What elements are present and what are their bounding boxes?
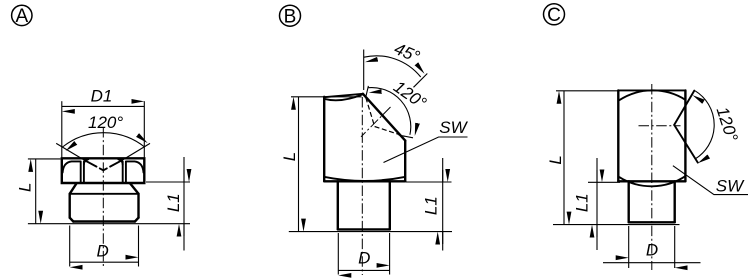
svg-text:L: L <box>15 183 34 192</box>
svg-text:A: A <box>15 6 28 27</box>
collar flare left (A) <box>70 183 77 193</box>
45-deg reference vertical line (B) <box>363 50 365 91</box>
thread bottom edge (B) <box>338 228 390 230</box>
dimension L1 bottom arrow (A) <box>183 224 185 236</box>
svg-text:C: C <box>547 5 561 26</box>
svg-text:SW: SW <box>439 118 468 137</box>
thread right side (C) <box>674 181 676 222</box>
SW leader line (C) <box>673 166 748 195</box>
dimension D left outside arrow (C) <box>603 262 629 264</box>
body left edge (B) <box>323 97 325 182</box>
dimension D line (B) <box>338 269 389 271</box>
body right edge (B) <box>404 141 406 182</box>
body right edge (C) <box>684 90 686 181</box>
svg-text:L: L <box>546 155 565 164</box>
collar bottom chamfer right (A) <box>135 218 139 222</box>
dimension L top extension line (A) <box>28 158 61 160</box>
centerline vertical (C) <box>651 84 653 270</box>
bottom extension line shared (C) <box>553 224 680 226</box>
funnel cone hidden edge lower (B) <box>375 127 405 137</box>
svg-text:D: D <box>96 241 108 260</box>
dimension L1 top extension line (A) <box>146 181 190 183</box>
bottom extension line shared L and L1 (A) <box>28 223 190 225</box>
body top edge (C) <box>618 89 685 91</box>
hex middle facet corner arc left (A) <box>84 159 88 164</box>
centerline vertical (A) <box>102 127 104 269</box>
svg-text:L1: L1 <box>573 193 592 212</box>
120-deg dimension arc (B) <box>368 88 411 135</box>
dimension L top extension line (B) <box>291 96 362 98</box>
collar flare right (A) <box>130 183 138 193</box>
funnel cone right edge (A) <box>103 160 122 170</box>
dimension D extension line left (A) <box>69 226 71 267</box>
funnel axis 45-deg centerline (B) <box>361 107 391 137</box>
collar bottom chamfer left (A) <box>70 218 74 222</box>
45-deg cut face line (B) <box>363 94 405 141</box>
dimension L1 line (A) <box>183 157 185 251</box>
dimension D extension line right (B) <box>389 233 391 275</box>
svg-text:D1: D1 <box>91 87 113 106</box>
dimension L1 line (C) <box>596 158 598 250</box>
dimension L1 top arrow (C) <box>596 170 598 182</box>
dimension D extension line left (C) <box>628 226 630 268</box>
body bottom edge (B) <box>324 180 405 182</box>
dimension L top extension line (C) <box>556 90 618 92</box>
120-deg dimension arc (A) <box>63 133 145 147</box>
45-deg dimension arc (B) <box>364 56 421 77</box>
dimension D right outside arrow (C) <box>675 262 701 264</box>
hex facet chamfer arc right (A) <box>126 161 144 172</box>
svg-text:D: D <box>646 240 658 259</box>
dimension D line middle (C) <box>629 262 675 264</box>
thread left side (B) <box>337 181 339 229</box>
svg-text:B: B <box>284 7 297 28</box>
svg-text:L1: L1 <box>422 196 441 215</box>
bottom extension line shared (B) <box>289 231 452 233</box>
dimension D1 extension line left <box>61 101 63 157</box>
collar flare bottom junction line (A) <box>70 193 139 195</box>
svg-text:L1: L1 <box>164 193 183 212</box>
hex head outline (A) <box>62 158 145 183</box>
dome tangent arc (C) <box>619 90 686 100</box>
120-deg dimension arc (C) <box>695 91 714 159</box>
body top edge (B) <box>324 94 363 97</box>
collar bottom edge (A) <box>73 220 135 222</box>
dimension L1 top arrow (A) <box>183 170 185 182</box>
dimension L1 line (B) <box>442 158 444 251</box>
120-deg cone extension line left (A) <box>56 143 84 160</box>
dimension L line (B) <box>298 97 300 232</box>
funnel cone edge upper (C) <box>674 91 694 125</box>
funnel cone hidden edge upper (B) <box>366 98 375 127</box>
dimension D extension line right (A) <box>138 226 140 267</box>
funnel cone left edge (A) <box>85 160 104 170</box>
dimension D extension line right (C) <box>674 226 676 268</box>
dimension D1 extension line right <box>143 101 145 157</box>
funnel cone edge lower (C) <box>674 125 698 163</box>
collar right side (A) <box>137 194 139 218</box>
dimension L1 top extension line (B) <box>406 181 452 183</box>
dimension D extension line left (B) <box>337 233 339 275</box>
body bottom chamfer arc (B) <box>325 177 405 181</box>
thread right side (B) <box>389 181 391 229</box>
SW leader line (B) <box>384 137 468 163</box>
dimension L line (A) <box>35 159 37 224</box>
dimension L1 bottom arrow (C) <box>596 225 598 237</box>
dimension L1 bottom arrow (B) <box>442 232 444 244</box>
hex facet edge lines (A) <box>81 161 126 183</box>
svg-text:SW: SW <box>716 177 745 196</box>
hex middle facet corner arc right (A) <box>118 159 122 164</box>
view label C circle <box>544 4 565 26</box>
dimension D1 line with arrows <box>62 105 145 107</box>
dimension L line (C) <box>563 91 565 225</box>
svg-text:D: D <box>358 249 370 268</box>
dome tangent arc (B) <box>325 94 363 100</box>
hex facet chamfer arc left (A) <box>63 161 81 172</box>
thread bottom edge (C) <box>629 221 675 223</box>
centerline vertical (B) <box>361 97 363 275</box>
120-deg cone extension lower (B) <box>399 135 414 138</box>
45-deg slant extension line (B) <box>414 74 428 88</box>
120-deg cone extension line right (A) <box>123 143 150 160</box>
svg-text:L: L <box>280 152 299 161</box>
collar left side (A) <box>68 194 70 218</box>
body bottom edge (C) <box>618 180 685 182</box>
svg-text:120°: 120° <box>88 113 123 132</box>
thread left side (C) <box>628 181 630 222</box>
dimension L1 top arrow (B) <box>442 170 444 182</box>
dimension L1 top extension line (C) <box>588 181 620 183</box>
view label A circle <box>12 5 32 27</box>
body bottom chamfer arc (C) <box>619 176 686 186</box>
body left edge (C) <box>617 90 619 181</box>
centerline horizontal (C) <box>639 125 681 127</box>
120-deg cone extension upper (B) <box>366 86 369 97</box>
view label B circle <box>280 5 301 27</box>
dimension D line (A) <box>70 261 139 263</box>
